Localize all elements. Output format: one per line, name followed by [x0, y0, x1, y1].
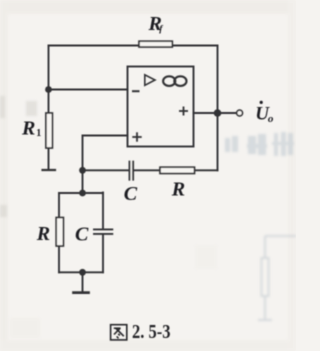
- svg-text:o: o: [268, 113, 274, 125]
- svg-text:C: C: [75, 224, 89, 246]
- svg-text:C: C: [124, 183, 138, 205]
- svg-text:R: R: [36, 223, 50, 245]
- svg-text:R: R: [171, 178, 185, 200]
- svg-text:2. 5-3: 2. 5-3: [132, 321, 171, 343]
- svg-text:R: R: [21, 117, 35, 139]
- svg-text:1: 1: [36, 128, 41, 139]
